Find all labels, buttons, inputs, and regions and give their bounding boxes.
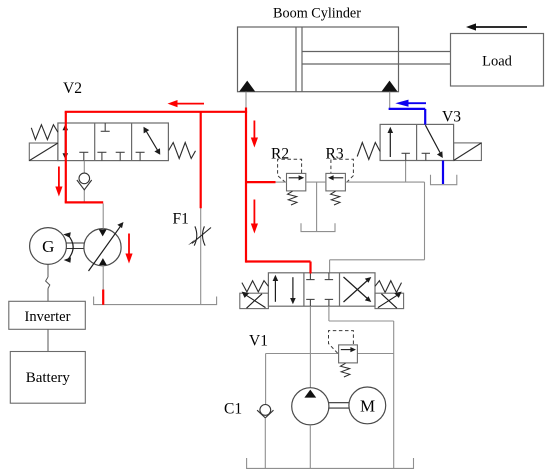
valve V3 body [380, 124, 454, 160]
svg-text:Load: Load [482, 53, 513, 69]
svg-text:V1: V1 [249, 332, 268, 349]
valve V1 body [268, 273, 375, 306]
cylinder port A (left triangle) [239, 81, 255, 92]
cylinder port B (right triangle) [382, 81, 398, 92]
wire: R2 to R3 [306, 181, 326, 183]
wire: pump feed gray [102, 204, 104, 229]
wire: up to V3 bottom port [405, 161, 407, 183]
wire inverter-battery [47, 329, 49, 351]
wire: return across [329, 320, 394, 322]
wire: relief inlet line [266, 353, 339, 355]
svg-text:G: G [42, 237, 54, 256]
wire: C1 branch down [265, 354, 267, 405]
load box [451, 34, 544, 87]
V1 left-square arrows [273, 275, 296, 304]
relief valve R2 [271, 146, 306, 206]
wire: motor suction down [102, 266, 104, 290]
pump outlet triangle [304, 390, 316, 398]
V1 left spring [242, 281, 269, 292]
check valve C1 [257, 405, 273, 418]
svg-text:M: M [360, 396, 375, 415]
blue line: cylinder port B to V3 [389, 92, 391, 109]
battery box [10, 352, 85, 404]
svg-text:Battery: Battery [26, 370, 71, 386]
wire: R3 to V3 port [345, 181, 424, 183]
main pump [292, 388, 329, 425]
svg-text:F1: F1 [173, 210, 189, 227]
wire: pump suction [309, 425, 311, 469]
electric motor M [349, 387, 386, 424]
tank bracket V3 [431, 175, 457, 185]
generator G [30, 228, 67, 265]
V1 left proportional solenoid [240, 292, 269, 309]
V2 left spring [31, 125, 58, 140]
rotation arc arrow [63, 232, 73, 263]
relief valve R3 [326, 146, 354, 206]
blue flow arrow [395, 100, 426, 107]
wire: V1 return port down [328, 306, 330, 321]
wire: relief outlet down [316, 182, 318, 232]
piston rod [302, 52, 451, 65]
red line: main from cylinder port A [65, 108, 311, 305]
V3 right solenoid [454, 143, 482, 161]
V3 right-square diagonal arrow [425, 125, 442, 158]
V1 right spring [375, 281, 402, 293]
valve V2 body [58, 123, 168, 161]
svg-text:Boom Cylinder: Boom Cylinder [273, 5, 361, 21]
V3 left-square up arrow [388, 127, 394, 157]
V3 blocked port T symbols [402, 153, 431, 160]
red flow arrow lower mid [251, 200, 258, 234]
wire: V1 bottom port to pump [309, 306, 311, 387]
V1 right-square crossed arrows [344, 277, 372, 302]
tank bottom rail [247, 458, 414, 468]
red flow arrow by motor [125, 234, 132, 264]
svg-text:Inverter: Inverter [25, 309, 71, 325]
red flow arrow upper mid [251, 121, 258, 148]
motor bottom triangle [99, 258, 107, 265]
wire: C1 to tank [264, 418, 266, 469]
V1 blocked port T symbols [306, 273, 333, 306]
system relief valve [329, 331, 358, 377]
wire: port A stub [245, 92, 247, 109]
svg-text:R2: R2 [271, 146, 289, 163]
load motion arrow [466, 23, 527, 30]
tank bracket R2 R3 [301, 223, 335, 231]
wire: R2 inlet gray stub [276, 181, 287, 183]
pump-motor shaft [329, 403, 349, 408]
motor top triangle [99, 230, 107, 237]
svg-text:V3: V3 [442, 108, 461, 125]
wire: return rail down [393, 321, 395, 468]
red flow arrow below V2 [55, 167, 62, 197]
wire: V3 line down [424, 182, 426, 260]
wire: across to V1 [330, 259, 425, 261]
wire: relief outlet line [357, 353, 393, 355]
wire: down into V1 top port [329, 260, 331, 273]
tank bracket left [94, 297, 217, 305]
inverter box [9, 301, 86, 329]
check valve under V2 [83, 161, 85, 203]
V2 right spring [169, 143, 196, 159]
V2 blocked port T symbols [79, 123, 144, 161]
boom cylinder body [238, 27, 399, 92]
hydraulic motor (variable) [84, 229, 121, 266]
V2 left solenoid [29, 143, 58, 161]
V2 right-square diagonal double arrow [144, 127, 161, 155]
variable displacement arrow [89, 222, 124, 271]
electric link G to inverter [46, 265, 50, 302]
svg-text:R3: R3 [326, 146, 344, 163]
svg-text:C1: C1 [224, 401, 242, 418]
V3 left spring [357, 143, 380, 160]
svg-text:V2: V2 [63, 80, 82, 97]
shaft coupling [66, 243, 84, 249]
V2 left-square double arrow [63, 124, 69, 159]
V1 right proportional solenoid [375, 292, 404, 309]
red flow arrow on main line [168, 100, 205, 107]
